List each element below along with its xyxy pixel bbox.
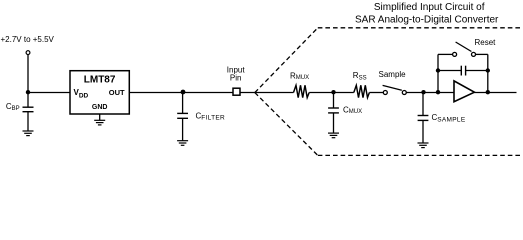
- svg-text:Sample: Sample: [379, 70, 407, 79]
- svg-text:Simplified Input Circuit of: Simplified Input Circuit of: [374, 2, 485, 13]
- svg-text:CFILTER: CFILTER: [196, 112, 226, 122]
- svg-text:RSS: RSS: [353, 71, 367, 81]
- svg-text:Reset: Reset: [475, 38, 497, 47]
- svg-text:+2.7V to +5.5V: +2.7V to +5.5V: [1, 35, 55, 44]
- svg-text:Pin: Pin: [230, 74, 242, 83]
- svg-text:LMT87: LMT87: [84, 74, 116, 85]
- svg-text:SAR Analog-to-Digital Converte: SAR Analog-to-Digital Converter: [355, 14, 499, 25]
- svg-text:CSAMPLE: CSAMPLE: [432, 113, 466, 123]
- svg-text:RMUX: RMUX: [290, 71, 309, 81]
- svg-text:OUT: OUT: [109, 88, 125, 97]
- svg-text:CBP: CBP: [6, 102, 20, 112]
- svg-text:CMUX: CMUX: [343, 106, 362, 116]
- svg-text:GND: GND: [92, 104, 108, 111]
